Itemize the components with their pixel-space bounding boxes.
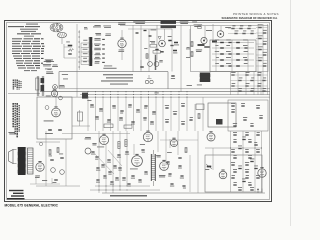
svg-text:MODEL 675 GENERAL ELECTRIC: MODEL 675 GENERAL ELECTRIC — [5, 203, 59, 207]
svg-text:SCHEMATIC DIAGRAM OF RECEIVER: SCHEMATIC DIAGRAM OF RECEIVER CH. — [222, 16, 278, 20]
